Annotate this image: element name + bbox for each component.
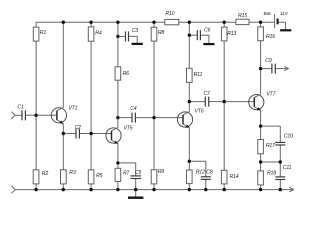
- resistor R14: [221, 170, 238, 184]
- output arrow C9: [284, 66, 288, 70]
- ground bottom rail: [128, 196, 143, 198]
- resistor R16: [258, 27, 275, 41]
- svg-text:C11: C11: [283, 165, 292, 171]
- resistor R2: [33, 170, 48, 184]
- svg-text:R18: R18: [267, 170, 276, 176]
- resistor R6: [115, 67, 129, 80]
- svg-text:C1: C1: [17, 105, 24, 111]
- capacitor C11: [275, 165, 291, 180]
- svg-text:R16: R16: [266, 34, 275, 40]
- resistor R15: [236, 13, 249, 25]
- ground C6: [203, 43, 214, 45]
- node C9 tap: [259, 67, 262, 70]
- resistor R3: [61, 170, 76, 184]
- wire top supply rail: [36, 21, 275, 23]
- ground battery: [280, 29, 291, 31]
- wire C10/C11 vertical line: [279, 126, 281, 142]
- svg-text:C5: C5: [135, 170, 142, 176]
- node bottom rail junctions: [34, 188, 282, 191]
- capacitor C9: [265, 58, 275, 74]
- svg-text:R1: R1: [40, 30, 47, 36]
- svg-text:R15: R15: [238, 13, 247, 19]
- wire C3 ground branch: [118, 35, 125, 37]
- svg-text:C6: C6: [204, 28, 211, 34]
- capacitor C3: [126, 28, 139, 41]
- wire C8 branch: [189, 161, 206, 176]
- transistor VT7: [249, 91, 277, 110]
- wire battery to ground: [279, 22, 286, 29]
- wire R6/VT5 vertical line: [117, 22, 119, 127]
- node VT6 emitter: [188, 160, 191, 163]
- wire R8/R9 vertical line: [153, 22, 155, 189]
- svg-text:VT7: VT7: [266, 91, 276, 97]
- svg-text:C9: C9: [265, 58, 272, 64]
- wire C9 output branch: [261, 68, 272, 70]
- battery Bat: [274, 14, 276, 28]
- capacitor C6: [197, 28, 210, 41]
- svg-text:VT5: VT5: [123, 126, 132, 132]
- wire C6 ground branch: [189, 34, 197, 36]
- node VT7 base: [223, 100, 226, 103]
- wire R17 bottom node: [261, 161, 281, 163]
- node VT5 collector: [116, 116, 119, 119]
- svg-text:R3: R3: [69, 170, 76, 176]
- resistor R5: [88, 170, 102, 184]
- svg-text:R10: R10: [165, 11, 174, 17]
- svg-text:C4: C4: [130, 106, 137, 112]
- svg-text:R17: R17: [266, 143, 276, 149]
- transistor VT1: [51, 105, 77, 123]
- resistor R9: [151, 169, 164, 184]
- node VT5 emitter: [116, 161, 119, 164]
- wire R13/R14 vertical line: [223, 22, 225, 101]
- wire VT7 emitter to C10: [261, 125, 281, 127]
- node VT5 base: [89, 132, 92, 135]
- svg-text:Bat: Bat: [264, 11, 272, 17]
- capacitor C2: [75, 125, 82, 139]
- resistor R11: [187, 68, 203, 82]
- resistor R1: [33, 27, 46, 41]
- ground C3: [132, 43, 143, 45]
- wire VT5 collector node to VT6 base: [118, 117, 132, 119]
- svg-text:R14: R14: [230, 174, 239, 180]
- node R17 bottom: [259, 160, 262, 163]
- svg-text:11V: 11V: [280, 11, 289, 17]
- svg-text:R2: R2: [42, 171, 49, 177]
- svg-text:R4: R4: [95, 31, 102, 37]
- wire R11/VT6 vertical line: [188, 22, 190, 111]
- wire input to VT1 base: [15, 114, 22, 116]
- wire VT1 emitter node to VT5 base: [63, 133, 76, 135]
- svg-text:C2: C2: [75, 125, 82, 131]
- wire R1/R2 vertical line: [35, 22, 37, 189]
- svg-text:R12: R12: [196, 170, 205, 176]
- transistor VT6: [177, 108, 203, 127]
- resistor R17: [258, 140, 276, 154]
- capacitor C5: [130, 170, 141, 179]
- resistor R10: [165, 11, 179, 25]
- input terminal bottom chevron: [12, 186, 16, 193]
- node VT1 emitter: [62, 132, 65, 135]
- output arrow bottom rail: [289, 187, 293, 192]
- node VT6 collector: [188, 100, 191, 103]
- node VT1 base: [34, 114, 37, 117]
- svg-text:R8: R8: [158, 30, 165, 36]
- wire C5 ground branch: [118, 163, 136, 176]
- node C3 tap: [116, 35, 119, 38]
- node top rail junctions: [62, 21, 263, 24]
- svg-text:C10: C10: [284, 134, 293, 140]
- wire VT1 collector/emitter vertical line: [62, 22, 64, 107]
- svg-text:C3: C3: [132, 28, 139, 34]
- node C6 tap: [188, 34, 191, 37]
- capacitor C1: [17, 105, 25, 121]
- svg-text:VT1: VT1: [68, 105, 77, 111]
- svg-text:C8: C8: [206, 170, 213, 176]
- svg-text:R9: R9: [158, 169, 165, 175]
- wire R16/VT7 vertical line: [260, 22, 262, 94]
- transistor VT5: [106, 126, 133, 144]
- wire R4/R5 vertical line: [90, 22, 92, 189]
- wire VT6 collector node to VT7 base: [189, 101, 205, 103]
- resistor R4: [88, 27, 102, 41]
- node C10 bottom: [279, 160, 282, 163]
- wire bottom ground rail: [15, 189, 293, 191]
- resistor R18: [258, 170, 276, 185]
- capacitor C8: [201, 170, 213, 180]
- svg-text:R6: R6: [123, 71, 130, 77]
- svg-text:R11: R11: [194, 72, 203, 78]
- resistor R12: [187, 170, 206, 184]
- input terminal top chevron: [11, 112, 15, 119]
- svg-text:R5: R5: [96, 173, 103, 179]
- capacitor C4: [130, 106, 137, 122]
- capacitor C7: [204, 91, 212, 107]
- resistor R13: [221, 27, 236, 41]
- resistor R7: [115, 168, 130, 181]
- resistor R8: [151, 27, 164, 41]
- svg-text:VT6: VT6: [195, 108, 204, 114]
- node C4 to VT6 base: [152, 116, 155, 119]
- svg-text:R13: R13: [227, 31, 236, 37]
- node VT7 emitter: [259, 124, 262, 127]
- capacitor C10: [275, 134, 293, 145]
